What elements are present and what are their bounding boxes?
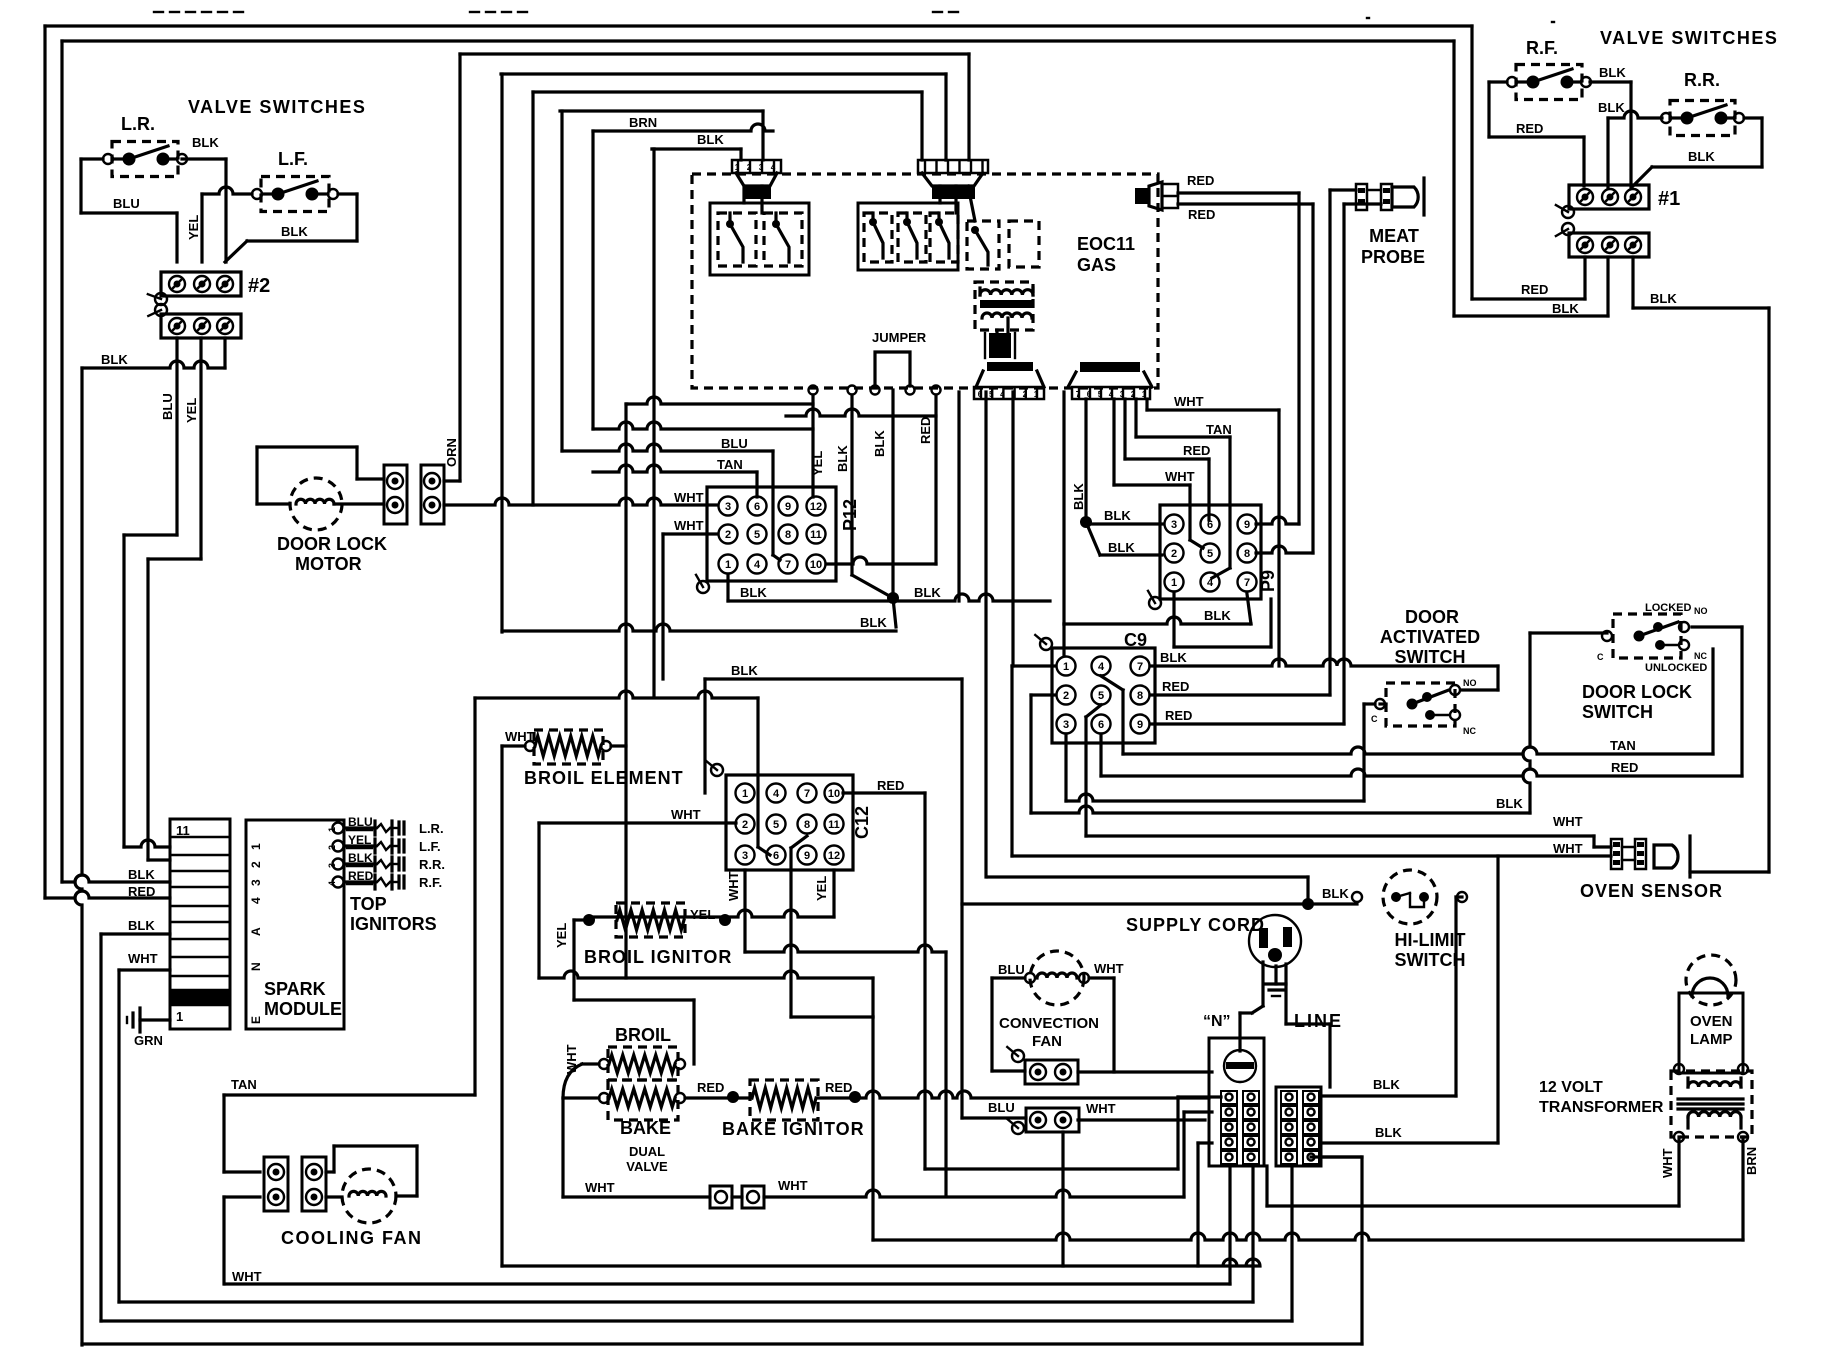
wire TAN EOC pin row to P9 pin 4 [1136, 399, 1232, 578]
label VALVE SWITCHES (left group) [188, 97, 366, 117]
svg-text:DOOR LOCK: DOOR LOCK [277, 534, 387, 554]
svg-text:PROBE: PROBE [1361, 247, 1425, 267]
wire BLK P12 pin 1 to junction [728, 575, 893, 601]
svg-text:BLK: BLK [1598, 100, 1625, 115]
wire BLU from L.R. to #2 pin 1 [81, 135, 219, 262]
supply cord ground symbol [1266, 966, 1286, 996]
svg-text:11: 11 [810, 529, 822, 541]
svg-text:YEL: YEL [690, 907, 715, 922]
flame sensor squares [710, 1186, 764, 1208]
svg-text:6: 6 [1207, 519, 1213, 531]
svg-text:BLK: BLK [1104, 508, 1131, 523]
meat probe receptacle and probe [1356, 178, 1425, 267]
svg-text:3: 3 [1063, 719, 1069, 731]
svg-text:BLK: BLK [192, 135, 219, 150]
svg-text:BAKE IGNITOR: BAKE IGNITOR [722, 1119, 865, 1139]
svg-text:L.F.: L.F. [278, 149, 308, 169]
svg-text:YEL: YEL [810, 451, 825, 476]
svg-text:5: 5 [773, 819, 779, 831]
dual valve broil/bake coils L1/L2 [599, 1025, 685, 1174]
wire BLK junction line y=631 [502, 615, 896, 631]
wire WHT bottom bus cooling fan to N block [225, 1166, 1230, 1284]
svg-text:2: 2 [1063, 690, 1069, 702]
wire WHT dual valve to flame sensors [563, 1180, 710, 1197]
svg-text:BLK: BLK [1552, 301, 1579, 316]
svg-text:RED: RED [697, 1080, 724, 1095]
svg-text:“N”: “N” [1203, 1013, 1231, 1030]
svg-text:BROIL: BROIL [615, 1025, 671, 1045]
svg-text:WHT: WHT [232, 1269, 262, 1284]
svg-text:#1: #1 [1658, 188, 1680, 210]
svg-text:YEL: YEL [814, 876, 829, 901]
connector P12 [696, 487, 860, 593]
svg-text:BLK: BLK [697, 132, 724, 147]
svg-text:2: 2 [1171, 548, 1177, 560]
svg-text:5: 5 [1098, 390, 1103, 399]
wire WHT door lock motor to P12 pin 3 [444, 490, 716, 505]
svg-text:BLK: BLK [914, 585, 941, 600]
svg-text:NC: NC [1694, 651, 1707, 661]
connector #2 upper half [148, 272, 270, 305]
terminal strip 11-1 (spark module input) [170, 819, 230, 1029]
svg-text:#2: #2 [248, 275, 270, 297]
EOC 4-pin connector P4 [732, 160, 781, 199]
wire convection fan to N screw terminal [1078, 1070, 1212, 1073]
svg-text:RED: RED [1165, 708, 1192, 723]
wire RED EOC terminal to P12 pin 10 [934, 395, 937, 564]
oven lamp DS1 [1679, 955, 1743, 1073]
wire YEL EOC terminal to P12 pin 12 [811, 395, 814, 497]
ground GRN at strip pin 1 [127, 1008, 170, 1048]
svg-text:BLK: BLK [1071, 483, 1086, 510]
svg-text:C12: C12 [852, 806, 872, 839]
wire C12 pin 8 to BRN bus [791, 836, 873, 1240]
wire WHT C12 pin 2 to broil ignitor return [539, 807, 873, 1017]
svg-text:11: 11 [176, 823, 190, 838]
svg-text:BLK: BLK [128, 867, 155, 882]
svg-text:8: 8 [785, 529, 791, 541]
wire meat probe to C9 pin 8 [1330, 190, 1356, 695]
svg-text:1: 1 [735, 163, 740, 172]
svg-text:YEL: YEL [184, 398, 199, 423]
svg-text:LOCKED: LOCKED [1645, 602, 1692, 614]
svg-text:VALVE SWITCHES: VALVE SWITCHES [1600, 28, 1778, 48]
svg-text:N: N [249, 962, 263, 971]
bake ignitor R3 [750, 1080, 818, 1120]
svg-text:8: 8 [1137, 690, 1143, 702]
svg-text:RED: RED [918, 417, 933, 444]
svg-text:6: 6 [773, 850, 779, 862]
svg-text:RED: RED [825, 1080, 852, 1095]
wire BLK EOC to junction (x893) [872, 390, 893, 598]
junction node BLK [887, 592, 899, 604]
svg-text:7: 7 [1244, 577, 1250, 589]
svg-text:BLK: BLK [1160, 650, 1187, 665]
broil ignitor R2 [584, 903, 732, 967]
svg-text:12: 12 [810, 501, 822, 513]
wire YEL from L.F. to #2 pin 2 [186, 187, 252, 262]
svg-text:8: 8 [804, 819, 810, 831]
svg-text:4: 4 [249, 897, 263, 904]
svg-text:TAN: TAN [1610, 738, 1636, 753]
valve switch L.R. [103, 114, 187, 177]
svg-text:BLK: BLK [740, 585, 767, 600]
wire bus y=1266 broil element feed to N block [502, 1143, 1260, 1266]
connector pin grids of "N" and LINE terminal blocks [1221, 1091, 1319, 1164]
wire YEL C12 pin 12 to broil ignitor [814, 870, 834, 917]
svg-text:7: 7 [1076, 390, 1081, 399]
svg-text:TRANSFORMER: TRANSFORMER [1539, 1099, 1664, 1116]
wire supply cord neutral to N screw [1240, 1006, 1263, 1051]
svg-text:SWITCH: SWITCH [1395, 647, 1466, 667]
valve switch L.F. [252, 149, 338, 212]
wire BLK C9 pin 7 to door activated switch NO [1150, 650, 1498, 690]
wire BLK from L.F. to #2 pin 3 [225, 194, 357, 262]
svg-text:CONVECTION: CONVECTION [999, 1015, 1099, 1032]
svg-text:6: 6 [978, 390, 983, 399]
broil element R1 [505, 729, 611, 764]
wire TAN to P12 pin 6 [593, 451, 825, 497]
label CONVECTION FAN [999, 1015, 1099, 1050]
wire WHT terminal strip to N block via bottom bus [119, 951, 1253, 1302]
svg-text:4: 4 [1000, 390, 1005, 399]
svg-text:C: C [1597, 652, 1604, 662]
svg-text:7: 7 [785, 559, 791, 571]
connector #2 lower half [148, 304, 241, 338]
svg-text:COOLING FAN: COOLING FAN [281, 1228, 423, 1248]
svg-text:3: 3 [1171, 519, 1177, 531]
svg-text:TAN: TAN [717, 457, 743, 472]
svg-text:5: 5 [1098, 690, 1104, 702]
svg-text:RED: RED [1516, 121, 1543, 136]
svg-text:BLK: BLK [1650, 291, 1677, 306]
svg-text:4: 4 [754, 559, 761, 571]
wire broil element to C12 pin 6 [475, 691, 770, 855]
svg-text:9: 9 [785, 501, 791, 513]
svg-text:2: 2 [725, 529, 731, 541]
svg-text:4: 4 [1207, 577, 1214, 589]
svg-text:MEAT: MEAT [1369, 226, 1419, 246]
wire RED C12 pin 10 to N block [843, 778, 925, 1169]
svg-text:1: 1 [1034, 390, 1039, 399]
convection fan connector blocks [1007, 1047, 1079, 1134]
wire BLK EOC terminal to junction [852, 395, 893, 598]
svg-text:12: 12 [828, 850, 840, 862]
svg-text:WHT: WHT [674, 518, 704, 533]
12 volt transformer T2 [1671, 1064, 1759, 1175]
svg-text:DOOR LOCK: DOOR LOCK [1582, 682, 1692, 702]
svg-text:1: 1 [249, 843, 263, 850]
svg-text:3: 3 [759, 163, 764, 172]
svg-text:C: C [1371, 714, 1378, 724]
svg-text:WHT: WHT [128, 951, 158, 966]
wire RED bake ignitor to N block [818, 1080, 1209, 1103]
wire RED from #1 pin 1 along top and left to terminal strip [45, 26, 1472, 899]
wire ORN stub at door lock motor connector [444, 479, 460, 482]
svg-text:SUPPLY CORD: SUPPLY CORD [1126, 915, 1265, 935]
door lock switch S2 [1582, 602, 1708, 722]
svg-text:4: 4 [1098, 661, 1105, 673]
svg-text:BLK: BLK [128, 918, 155, 933]
label BROIL ELEMENT [524, 768, 684, 788]
wire BLK hi-limit to LINE block [1321, 897, 1462, 1096]
connector #1 lower half [1556, 205, 1649, 257]
svg-text:WHT: WHT [726, 871, 741, 901]
svg-text:6: 6 [1098, 719, 1104, 731]
wire BLK R.R. to #1 pin 2 [1598, 100, 1662, 187]
svg-text:R.R.: R.R. [419, 857, 445, 872]
svg-text:BLK: BLK [860, 615, 887, 630]
valve switch R.R. [1661, 70, 1744, 136]
label BAKE IGNITOR [722, 1119, 865, 1139]
svg-text:BLU: BLU [988, 1100, 1015, 1115]
wire staircase feed to N block row 1 [925, 1097, 1221, 1169]
EOC11 GAS control board outline [692, 174, 1158, 388]
svg-text:VALVE SWITCHES: VALVE SWITCHES [188, 97, 366, 117]
svg-text:RED: RED [128, 884, 155, 899]
svg-text:2: 2 [327, 845, 337, 850]
wire broil element right lead [611, 744, 626, 747]
wire BLK P9 pins 1/7 loop [1064, 592, 1271, 656]
wire RED P12 pin 10 [826, 557, 936, 564]
wire BLK from L.R. to #2 pin 3 [182, 159, 226, 262]
wire BLK from #1 pin 2 along top and left to terminal strip [62, 41, 1454, 882]
svg-text:WHT: WHT [1086, 1101, 1116, 1116]
svg-text:4: 4 [773, 788, 780, 800]
wire WHT broil element to bus y=1266 [502, 746, 525, 1266]
svg-text:BLU: BLU [113, 196, 140, 211]
svg-text:GRN: GRN [134, 1033, 163, 1048]
wire RED C9 pin 6 to door lock switch NO [1101, 627, 1742, 776]
svg-text:BLK: BLK [1688, 149, 1715, 164]
wire WHT EOC pin row to P9 pin 5 [1114, 399, 1203, 548]
svg-text:BLK: BLK [1322, 886, 1349, 901]
wire BLK #1 pin 3 down right side to oven sensor [1633, 257, 1769, 872]
svg-text:7: 7 [804, 788, 810, 800]
EOC relay group K2 (3 switches) [858, 203, 958, 270]
door lock motor connector blocks [334, 465, 444, 524]
spark module U1 [246, 820, 344, 1029]
wire TAN C9 pin 4 to door lock switch NC [1101, 649, 1713, 754]
wire RED C9 pin 8 [1150, 679, 1330, 695]
wire BLK R.R. to #1 pin 3 [1633, 118, 1762, 186]
svg-text:BLK: BLK [1599, 65, 1626, 80]
svg-text:P12: P12 [840, 499, 860, 531]
wire RED EOC pin row to P9 pin 6 [1125, 399, 1210, 520]
svg-text:OVEN SENSOR: OVEN SENSOR [1580, 881, 1723, 901]
EOC relay K3 [940, 186, 1039, 269]
scan artifact dashes top edge [154, 12, 1554, 22]
svg-text:WHT: WHT [1165, 469, 1195, 484]
svg-text:1: 1 [176, 1009, 183, 1024]
svg-text:RED: RED [1162, 679, 1189, 694]
wire vertical x=626 broil element feed [624, 404, 627, 978]
svg-text:2: 2 [249, 861, 263, 868]
wire LINE block row to bottom bus [1311, 1155, 1360, 1158]
svg-text:YEL: YEL [554, 923, 569, 948]
wire BLK junction to C9 [893, 585, 1050, 601]
svg-text:WHT: WHT [1174, 394, 1204, 409]
wire BLK to EOC 4-pin connector [652, 132, 741, 697]
wire C9 pin 3 to door activated switch C [1066, 704, 1375, 801]
svg-text:TAN: TAN [1206, 422, 1232, 437]
svg-text:BLU: BLU [160, 393, 175, 420]
wire WHT C9 pin 5 to oven sensor [1086, 705, 1611, 847]
svg-text:BLK: BLK [872, 430, 887, 457]
svg-text:BLK: BLK [1496, 796, 1523, 811]
svg-text:NC: NC [1463, 726, 1476, 736]
N terminal block [1209, 1038, 1264, 1166]
svg-text:DUAL: DUAL [629, 1144, 665, 1159]
svg-text:3: 3 [249, 879, 263, 886]
label COOLING FAN [281, 1228, 423, 1248]
svg-text:SPARK: SPARK [264, 979, 326, 999]
wire RED buzzer to P9 pin 8 [1178, 204, 1313, 553]
wire YEL #2 pin 2 to spark terminal strip [148, 338, 201, 860]
oven sensor RT1 [1580, 836, 1723, 901]
svg-text:WHT: WHT [585, 1180, 615, 1195]
wire run y=416 [786, 409, 936, 416]
label VALVE SWITCHES (right group) [1600, 28, 1778, 48]
svg-text:BAKE: BAKE [620, 1118, 671, 1138]
svg-text:BROIL ELEMENT: BROIL ELEMENT [524, 768, 684, 788]
svg-text:ORN: ORN [444, 438, 459, 467]
svg-text:MODULE: MODULE [264, 999, 342, 1019]
svg-text:E: E [249, 1016, 263, 1024]
svg-text:BLK: BLK [731, 663, 758, 678]
svg-text:WHT: WHT [674, 490, 704, 505]
svg-text:L.F.: L.F. [419, 839, 441, 854]
wire WHT C12 pin 3 [726, 870, 946, 1195]
wire BLK #1 pin 2 down-left [1454, 41, 1608, 316]
svg-text:RED: RED [1187, 173, 1214, 188]
svg-text:EOC11: EOC11 [1077, 234, 1135, 254]
wire BLU to P12 pin 7 [562, 436, 780, 560]
convection fan motor M3 [992, 951, 1124, 1072]
svg-text:9: 9 [1244, 519, 1250, 531]
svg-text:3: 3 [725, 501, 731, 513]
svg-text:WHT: WHT [778, 1178, 808, 1193]
svg-text:DOOR: DOOR [1405, 607, 1459, 627]
svg-text:R.F.: R.F. [1526, 38, 1558, 58]
svg-text:BLU: BLU [998, 962, 1025, 977]
svg-text:BLU: BLU [721, 436, 748, 451]
wire BLK to P9 pin 3 with junction [1071, 399, 1162, 555]
svg-text:RED: RED [1521, 282, 1548, 297]
svg-text:ACTIVATED: ACTIVATED [1380, 627, 1480, 647]
svg-text:RED: RED [877, 778, 904, 793]
svg-text:OVEN: OVEN [1690, 1013, 1733, 1030]
svg-text:LINE: LINE [1294, 1011, 1343, 1031]
label 12 VOLT TRANSFORMER [1539, 1079, 1664, 1116]
svg-text:BLK: BLK [101, 352, 128, 367]
svg-text:TOP: TOP [350, 894, 387, 914]
wire WHT dual valve left side [563, 1044, 599, 1197]
wire P9 pin 8 to buzzer RED [1256, 546, 1313, 553]
svg-text:1: 1 [742, 788, 748, 800]
svg-text:6: 6 [754, 501, 760, 513]
svg-text:LAMP: LAMP [1690, 1031, 1733, 1048]
svg-text:5: 5 [989, 390, 994, 399]
wire BRN to EOC 4-pin connector [593, 115, 773, 429]
svg-text:5: 5 [754, 529, 760, 541]
door activated switch S1 [1371, 607, 1480, 736]
svg-text:A: A [249, 927, 263, 936]
svg-text:8: 8 [1244, 548, 1250, 560]
supply cord plug [1126, 915, 1301, 1024]
EOC board connector 6-5-4-3-2-1 [974, 362, 1044, 399]
EOC internal transformer T1 [975, 282, 1033, 330]
wire BLK terminal strip to LINE block via bottom bus [101, 918, 1292, 1321]
wire YEL broil ignitor line [589, 907, 834, 922]
wire BLU branch to convection fan block [962, 1100, 1026, 1118]
svg-text:SWITCH: SWITCH [1582, 702, 1653, 722]
wire RED bake coil to bake ignitor [685, 1080, 750, 1103]
svg-text:3: 3 [327, 863, 337, 868]
wire WHT transformer to LINE block [1267, 1137, 1679, 1206]
wire meat probe to C9 pin 9 [1344, 204, 1381, 724]
svg-text:R.F.: R.F. [419, 875, 442, 890]
svg-text:1: 1 [1063, 661, 1069, 673]
svg-text:BLK: BLK [281, 224, 308, 239]
wire TAN to cooling fan [224, 698, 475, 1284]
jumper J1 and EOC bottom terminals [809, 330, 941, 472]
wire BLK C12 pin 1 to hi-limit switch [705, 663, 1357, 1118]
svg-text:9: 9 [1137, 719, 1143, 731]
wire BLK R.F. to #1 pin 3 [1590, 65, 1631, 187]
svg-text:WHT: WHT [1553, 814, 1583, 829]
EOC board connector 7-6-5-4-3-2-1 [1068, 362, 1152, 399]
wire run y=404 [626, 397, 813, 404]
svg-text:7: 7 [1137, 661, 1143, 673]
wire nested run to EOC 6-pin pin (x533) [533, 92, 922, 505]
wire nested run to EOC 4-pin pin (x562) [560, 111, 763, 451]
wire EOC pin row drops (x959/x986/x1013/x1064) [959, 392, 1064, 877]
svg-text:4: 4 [771, 163, 776, 172]
wire run y=429 [593, 422, 813, 429]
wire RED R.F. to #1 pin 1 [1489, 82, 1584, 186]
EOC 6-pin connector P6 [918, 160, 988, 199]
LINE terminal block [1276, 1087, 1321, 1166]
cooling fan motor M1 [326, 1146, 417, 1223]
svg-text:WHT: WHT [1094, 961, 1124, 976]
svg-text:L.R.: L.R. [419, 821, 444, 836]
EOC relay group K1 (2 switches) [710, 186, 809, 275]
svg-text:3: 3 [742, 850, 748, 862]
wire RED buzzer to P9 pin 9 [1178, 173, 1299, 524]
svg-text:2: 2 [747, 163, 752, 172]
valve switch R.F. [1507, 38, 1591, 100]
svg-text:BLK: BLK [1375, 1125, 1402, 1140]
EOC buzzer/receptacle [1135, 182, 1178, 210]
wire ORN door lock motor to EOC 6-pin connector [444, 54, 969, 481]
broil ignitor junction dots [583, 914, 731, 926]
svg-text:WHT: WHT [1660, 1148, 1675, 1178]
wire BLK junction to y=631 line [893, 598, 896, 627]
svg-text:L.R.: L.R. [121, 114, 155, 134]
door lock motor M2 [257, 447, 387, 574]
svg-text:WHT: WHT [671, 807, 701, 822]
wire WHT convection fan block to N block [1078, 1101, 1205, 1120]
wire WHT C9 pin 1 to oven sensor [1012, 666, 1611, 856]
svg-text:BROIL IGNITOR: BROIL IGNITOR [584, 947, 732, 967]
wire BLU #2 pin 1 to spark terminal strip [124, 338, 177, 847]
svg-text:12 VOLT: 12 VOLT [1539, 1079, 1603, 1096]
wire supply cord line to LINE block [1203, 1011, 1343, 1087]
wire RED C9 pin 9 [1150, 708, 1344, 724]
svg-text:BRN: BRN [629, 115, 657, 130]
wire RED #1 pin 1 down-left [1472, 26, 1585, 299]
